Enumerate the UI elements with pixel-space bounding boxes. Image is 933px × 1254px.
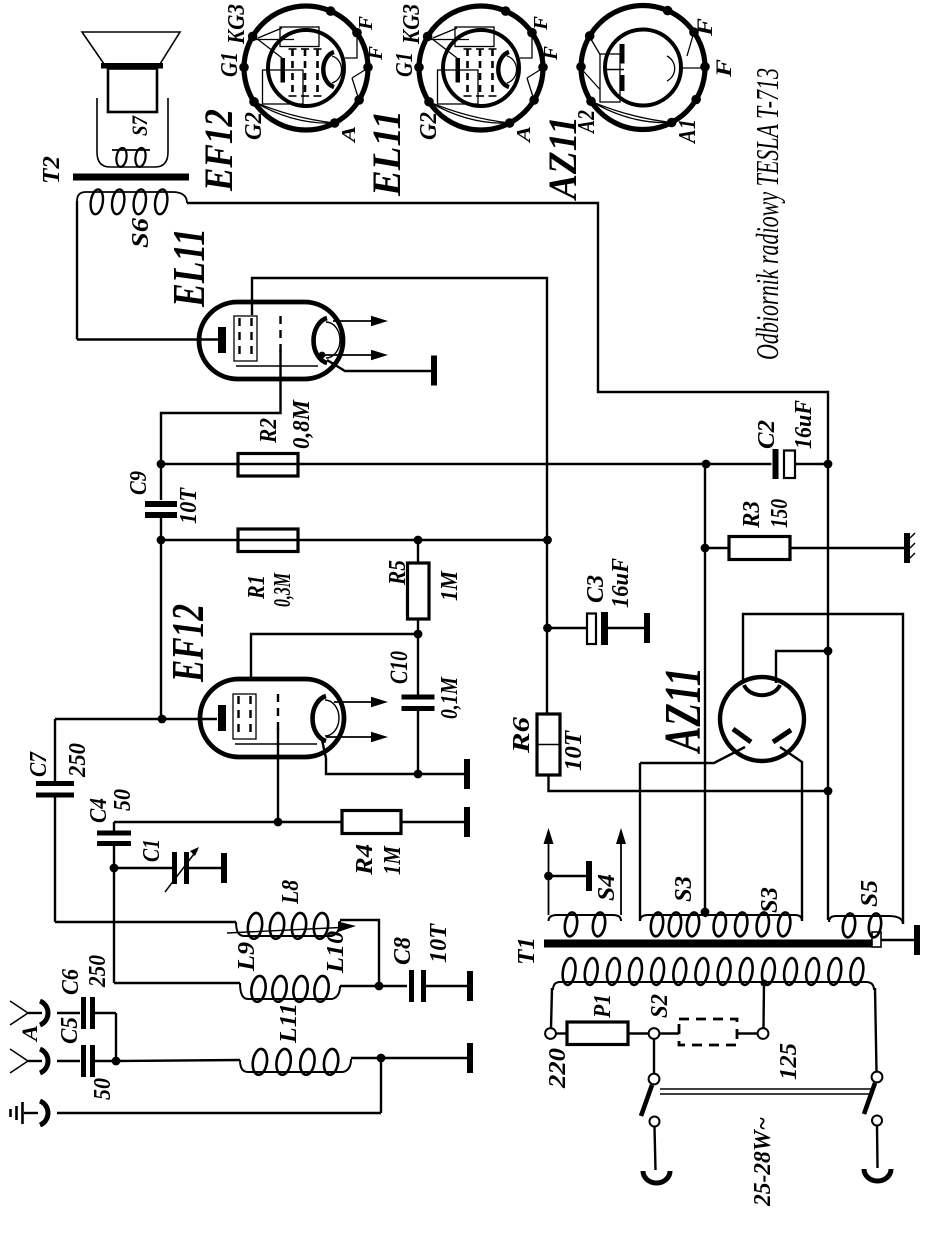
L8 arrow — [227, 928, 340, 934]
svg-text:50: 50 — [90, 1078, 116, 1100]
chassis bar (C3) — [644, 613, 650, 643]
socket AZ11 (base diagram) — [576, 6, 710, 130]
capacitor C6 (250) — [57, 1012, 80, 1014]
winding S3b — [709, 914, 795, 916]
svg-text:16uF: 16uF — [608, 558, 634, 608]
node dot — [701, 544, 710, 553]
socket EF12 (base diagram) — [239, 6, 373, 130]
node dot — [377, 1054, 386, 1063]
wire AZ11 filament left — [743, 614, 903, 924]
wire B+ rail y464 — [161, 463, 772, 465]
node dot — [414, 630, 423, 639]
terminal circle 220 — [545, 1028, 556, 1039]
EL11 grid box — [234, 316, 257, 361]
node dot — [543, 536, 552, 545]
EF12 anode bar — [218, 705, 226, 731]
speaker body — [108, 69, 157, 113]
wire AZ11 anode left — [640, 747, 745, 763]
wire C8 link — [340, 985, 379, 987]
node dot — [112, 1057, 121, 1066]
svg-text:F: F — [711, 59, 736, 79]
svg-text:G1: G1 — [217, 52, 243, 77]
wire grid2 rail y822 — [114, 821, 342, 823]
resistor R6 (10T) — [537, 714, 560, 775]
mains plug arc right — [864, 1169, 891, 1181]
node dot — [110, 864, 119, 873]
AZ11 anode bar left — [733, 729, 751, 742]
svg-text:Odbiornik radiowy TESLA T-713: Odbiornik radiowy TESLA T-713 — [749, 68, 785, 360]
svg-text:F: F — [540, 45, 562, 61]
node dot — [824, 647, 833, 656]
svg-text:L11: L11 — [276, 1003, 302, 1044]
svg-text:0,3M: 0,3M — [270, 572, 296, 607]
capacitor C2 (16uF) — [773, 449, 779, 479]
tube AZ11 (rectifier) — [720, 677, 804, 761]
AZ11 filament arc — [744, 685, 780, 695]
coil L8 — [244, 935, 332, 937]
svg-text:G2: G2 — [416, 112, 442, 140]
node dot — [157, 460, 166, 469]
wire R6 to S5 line — [549, 775, 830, 791]
wire L11 right — [351, 1057, 469, 1059]
winding S4 — [557, 914, 613, 916]
svg-text:L10: L10 — [323, 931, 349, 974]
wire AZ11 filament right — [776, 651, 828, 683]
switch pole left pivot — [649, 1074, 660, 1085]
wire anode EL11 from S6 — [76, 201, 78, 340]
resistor R4 (1M) — [342, 811, 401, 834]
tube EF12 — [200, 679, 344, 757]
antenna socket arc 1 — [40, 1001, 48, 1025]
wire x828 (C2 minus) — [827, 464, 829, 920]
chassis bar (C1) — [221, 853, 227, 883]
wire EF12 grid1 to node — [251, 634, 418, 679]
EF12 control grid dash — [277, 694, 279, 730]
svg-text:S2: S2 — [647, 994, 673, 1018]
svg-text:C4: C4 — [86, 798, 112, 823]
switch contact right — [872, 1116, 882, 1126]
resistor R5 (1M) — [417, 540, 419, 563]
wire plug left — [655, 1127, 656, 1170]
socket EL11 (base diagram) — [414, 6, 548, 130]
wire EF12 control grid down — [277, 728, 279, 822]
ground symbol — [21, 1102, 24, 1124]
chassis bar (EL11 cathode) — [431, 356, 437, 386]
node dot — [824, 787, 833, 796]
svg-text:25-28W~: 25-28W~ — [750, 1117, 776, 1207]
svg-text:R5: R5 — [385, 560, 411, 586]
node dot — [544, 872, 553, 881]
coil L9 L10 — [248, 998, 332, 1000]
switch pole right pivot — [872, 1072, 883, 1083]
winding S5 — [836, 915, 888, 917]
chassis bar (L11) — [467, 1043, 473, 1073]
capacitor C1 (variable) — [114, 867, 172, 869]
chassis bar (S4) — [586, 861, 592, 891]
svg-text:125: 125 — [776, 1043, 802, 1080]
svg-text:F: F — [530, 15, 552, 31]
svg-text:C8: C8 — [390, 937, 416, 965]
wire x705 — [704, 464, 706, 915]
terminal circle S2 — [649, 1028, 660, 1039]
svg-text:F: F — [365, 45, 387, 61]
EL11 anode bar — [218, 327, 226, 353]
svg-text:C6: C6 — [58, 969, 84, 995]
node dot — [701, 908, 710, 917]
wire S4 tap — [549, 875, 587, 877]
EL11 screen grid dashes — [238, 318, 240, 359]
svg-text:F: F — [355, 15, 377, 31]
wire ground to L11 node — [57, 1112, 381, 1114]
svg-text:P1: P1 — [590, 994, 616, 1019]
svg-text:S3: S3 — [757, 887, 783, 913]
svg-text:250: 250 — [65, 743, 91, 778]
capacitor C4 (50) — [113, 822, 115, 831]
resistor R3 (150) — [705, 547, 729, 549]
wire EL11 grid to C9 — [161, 350, 281, 500]
svg-text:C10: C10 — [386, 651, 413, 684]
capacitor C9 (10T) — [145, 501, 177, 507]
S4 arrow left — [548, 842, 550, 915]
svg-text:16uF: 16uF — [791, 400, 817, 449]
chassis bar (T1 core) — [914, 925, 920, 955]
switch lever left — [641, 1085, 652, 1116]
svg-text:A1: A1 — [675, 119, 701, 145]
resistor R1 (0,3M) — [238, 529, 298, 552]
svg-text:S4: S4 — [594, 874, 620, 901]
svg-text:EF12: EF12 — [163, 604, 213, 683]
svg-text:50: 50 — [110, 789, 136, 811]
node dot — [414, 770, 423, 779]
svg-text:C7: C7 — [26, 751, 52, 777]
node dot — [274, 818, 283, 827]
chassis bar (C8) — [467, 971, 473, 1001]
svg-text:S7: S7 — [127, 115, 152, 136]
svg-text:A: A — [513, 126, 535, 144]
resistor R2 (0,8M) — [238, 454, 298, 477]
wire R1 rail y540 — [161, 539, 548, 541]
svg-text:1M: 1M — [437, 570, 463, 601]
chassis bar (R4) — [464, 807, 470, 837]
wire primary right down — [875, 988, 877, 1071]
svg-text:R3: R3 — [739, 501, 765, 529]
wire C5 node to L11 — [116, 1060, 240, 1061]
voltage selector dashed box — [679, 1019, 737, 1045]
EF12 internal shield line — [235, 743, 317, 745]
svg-text:G2: G2 — [241, 112, 267, 140]
S4 arrow right — [620, 842, 622, 915]
antenna A1 symbol — [28, 1012, 42, 1014]
svg-text:AZ11: AZ11 — [540, 116, 585, 202]
fuse P1 — [556, 1032, 567, 1034]
wire EL11 screen g2 — [252, 278, 547, 714]
capacitor C10 (0,1M) — [417, 634, 419, 695]
node dot — [543, 624, 552, 633]
EL11 heater arrow 2 — [319, 352, 326, 359]
capacitor C7 (250) — [36, 781, 74, 786]
wire plug right — [876, 1126, 879, 1168]
svg-text:R1: R1 — [244, 575, 270, 600]
wire C4 to L9 — [113, 868, 115, 983]
svg-text:10T: 10T — [426, 923, 452, 963]
switch link bars — [660, 1088, 871, 1090]
svg-text:250: 250 — [85, 955, 111, 988]
capacitor C3 (16uF) — [548, 627, 588, 629]
node dot — [375, 982, 384, 991]
svg-text:A: A — [338, 126, 360, 144]
EL11 control grid dash — [279, 316, 281, 352]
svg-text:A: A — [17, 1025, 42, 1043]
EF12 heater arrow 1 — [334, 701, 373, 703]
winding S7 — [112, 149, 150, 151]
svg-text:EF12: EF12 — [196, 109, 241, 192]
svg-text:C9: C9 — [126, 471, 152, 495]
svg-text:C3: C3 — [583, 575, 609, 603]
speaker magnet cup — [97, 98, 168, 167]
mains plug arc left — [643, 1171, 670, 1183]
svg-text:G1: G1 — [392, 52, 418, 77]
svg-text:S5: S5 — [857, 880, 883, 907]
winding S6 — [86, 191, 172, 193]
EL11 heater arrow 1 — [333, 320, 373, 322]
svg-text:0,1M: 0,1M — [437, 676, 463, 719]
svg-text:1M: 1M — [380, 845, 406, 875]
svg-text:EL11: EL11 — [164, 228, 214, 308]
svg-text:KG3: KG3 — [224, 4, 250, 45]
EF12 screen grid dashes — [237, 696, 239, 737]
switch lever right — [864, 1083, 875, 1114]
svg-text:150: 150 — [767, 499, 793, 528]
switch contact left — [650, 1117, 660, 1127]
svg-text:C1: C1 — [139, 839, 165, 862]
terminal circle 125 — [758, 1028, 769, 1039]
svg-text:R2: R2 — [256, 418, 282, 444]
capacitor C5 (50) — [57, 1060, 80, 1062]
coil L11 — [248, 1071, 343, 1073]
svg-text:R4: R4 — [352, 844, 378, 876]
wire primary left down — [551, 988, 552, 1028]
wire C7 to L8 — [54, 797, 56, 922]
svg-text:L8: L8 — [278, 880, 304, 905]
wire EF12 anode lead — [162, 718, 217, 720]
node dot — [158, 715, 167, 724]
chassis bar (R3) — [904, 533, 910, 563]
ground socket arc — [40, 1101, 48, 1125]
winding S3a — [648, 914, 702, 916]
speaker horn — [82, 32, 180, 64]
svg-text:10T: 10T — [561, 730, 587, 771]
svg-text:F: F — [692, 18, 717, 38]
capacitor C8 (10T) — [409, 970, 414, 1002]
svg-text:T1: T1 — [514, 937, 540, 965]
wire S2 down — [653, 1039, 655, 1074]
svg-text:KG3: KG3 — [399, 4, 425, 45]
svg-text:10T: 10T — [176, 487, 202, 524]
wire C6 to C5 node — [115, 1013, 117, 1061]
svg-text:L9: L9 — [234, 942, 260, 972]
wire AZ11 anode right — [780, 747, 802, 921]
chassis bar (EF12 cathode) — [464, 759, 470, 789]
AZ11 anode bar right — [773, 730, 791, 742]
svg-text:T2: T2 — [39, 156, 65, 184]
node dot — [702, 460, 711, 469]
tube EL11 — [199, 302, 343, 379]
transformer T2 core — [73, 174, 189, 181]
EF12 cathode to chassis — [322, 740, 466, 774]
svg-text:S6: S6 — [128, 218, 154, 248]
svg-text:0,8M: 0,8M — [289, 398, 315, 449]
svg-text:AZ11: AZ11 — [655, 667, 712, 754]
svg-text:EL11: EL11 — [364, 110, 409, 197]
node dot — [157, 536, 166, 545]
antenna A2 symbol — [28, 1060, 42, 1062]
wire 125 tap — [762, 983, 765, 1028]
svg-text:220: 220 — [545, 1048, 571, 1089]
svg-text:C2: C2 — [754, 420, 780, 449]
EL11 internal shield line — [236, 365, 318, 367]
svg-text:R6: R6 — [509, 717, 535, 754]
transformer T1 core — [544, 940, 872, 948]
EF12 grid box — [233, 694, 256, 739]
EL11 cathode to chassis — [327, 360, 433, 371]
wire L8 to C8 node — [340, 920, 379, 986]
svg-text:S3: S3 — [671, 876, 697, 902]
svg-text:C5: C5 — [57, 1017, 83, 1044]
wire anode node to C7 — [55, 718, 162, 720]
EL11 cathode arc — [314, 318, 327, 363]
EF12 heater arrow 2 — [326, 736, 373, 738]
T1 core end box — [872, 932, 881, 947]
wire S6 to B+ node — [187, 203, 828, 464]
T1 primary winding — [558, 981, 868, 983]
EF12 cathode arc — [313, 696, 326, 741]
node dot — [824, 460, 833, 469]
antenna socket arc 2 — [40, 1049, 48, 1073]
wire C9 lower to EF12 anode node — [160, 518, 162, 719]
node dot — [414, 536, 423, 545]
